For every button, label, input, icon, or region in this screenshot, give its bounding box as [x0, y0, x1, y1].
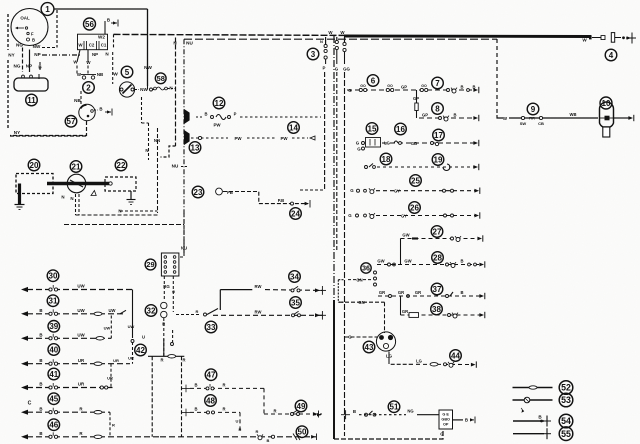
- callout 34: [289, 271, 301, 283]
- row 26 connector a: [356, 214, 359, 217]
- lamp row 31 lead with arrow: [21, 311, 28, 316]
- svg-text:17: 17: [434, 131, 443, 140]
- battery earth symbol: [15, 205, 25, 210]
- svg-text:NU: NU: [186, 41, 193, 46]
- lamp row 45 lead with arrow: [21, 410, 28, 415]
- NP wire to ignition coil: [42, 54, 80, 56]
- corner W wire to wiper: [497, 115, 503, 118]
- row 8 lamp: [443, 116, 449, 121]
- row 51 left stub: [313, 414, 322, 416]
- bottom connector: [271, 435, 274, 438]
- row 41 bullet connector: [49, 383, 58, 389]
- row 45 bullet connector: [49, 408, 58, 414]
- row 34 terminal arrowhead: [315, 288, 320, 292]
- GN wire to stabilizer: [339, 301, 385, 303]
- row 30 wire: [27, 289, 133, 291]
- row 34 switch: [291, 286, 300, 292]
- svg-text:OAL: OAL: [20, 16, 30, 21]
- callout 51: [388, 401, 400, 413]
- row 47 bullet connector: [206, 384, 214, 390]
- svg-text:UW: UW: [77, 284, 85, 289]
- starter B wire: [94, 109, 98, 111]
- bus P connector 3: [324, 56, 327, 59]
- left rail bottom section: [151, 356, 153, 437]
- svg-text:57: 57: [67, 117, 76, 126]
- row 38 wire: [401, 314, 482, 316]
- wiper connector a: [521, 116, 524, 119]
- callout 55: [559, 427, 573, 441]
- legend apostrophe mark: [521, 408, 524, 412]
- NW wire to vertical: [42, 47, 57, 49]
- svg-text:13: 13: [191, 143, 200, 152]
- svg-text:B: B: [465, 418, 468, 423]
- svg-text:23: 23: [194, 188, 203, 197]
- UW drop from row 30: [132, 290, 134, 339]
- svg-text:B: B: [39, 308, 42, 313]
- row 39 wire: [27, 337, 111, 339]
- B wire stub: [39, 62, 41, 72]
- svg-text:R: R: [196, 309, 199, 314]
- instrument voltage stabilizer (43) body: [376, 332, 395, 351]
- row 51 wire b: [417, 414, 439, 416]
- RG wire to flasher: [163, 276, 165, 301]
- svg-text:46: 46: [49, 421, 58, 430]
- NW wire stub: [153, 89, 157, 91]
- callout 40: [48, 344, 60, 356]
- row 7 connector b: [467, 89, 470, 92]
- left frame border upper: [7, 14, 9, 50]
- svg-text:5: 5: [125, 68, 130, 77]
- row 8 connector: [439, 117, 442, 120]
- bus G vertical: [336, 72, 338, 250]
- svg-text:NB: NB: [97, 72, 103, 77]
- hatched terminal 50: [293, 434, 300, 441]
- main feed wire from coil box: [114, 34, 345, 35]
- row 31 wire: [27, 313, 126, 315]
- svg-text:NU: NU: [172, 164, 179, 169]
- lamp row 46 lead with arrow: [21, 434, 28, 439]
- bottom wire lamp: [257, 434, 263, 439]
- svg-text:21: 21: [72, 162, 81, 171]
- svg-text:B: B: [194, 383, 197, 388]
- svg-text:R: R: [273, 408, 276, 413]
- row 28 connector b: [393, 263, 396, 266]
- dynamo (1) body: [11, 9, 48, 46]
- row 26 terminal: [474, 212, 479, 218]
- bus P vertical: [324, 72, 326, 190]
- battery earth thick cable: [18, 184, 21, 205]
- callout 4: [605, 49, 617, 61]
- row 45 inline connector: [94, 411, 102, 414]
- callout 10: [600, 97, 612, 109]
- svg-text:GW: GW: [377, 258, 384, 263]
- row 12 wire to bus: [240, 116, 321, 118]
- row 51 blade: [369, 411, 373, 415]
- svg-text:R: R: [239, 427, 242, 432]
- callout 56: [84, 18, 96, 30]
- contact breaker points: [81, 75, 96, 80]
- svg-text:FIR: FIR: [529, 117, 535, 121]
- ignition coil windings: [78, 34, 108, 50]
- row 15 terminal: [473, 140, 478, 146]
- svg-text:G: G: [357, 147, 361, 152]
- svg-text:C: C: [28, 401, 32, 407]
- row 28 connector c: [446, 263, 449, 266]
- bus P stub to feed line: [325, 37, 327, 45]
- svg-text:29: 29: [146, 260, 154, 269]
- lamp row 39 lead with arrow: [21, 336, 28, 341]
- NW stub to switch wire: [147, 86, 149, 90]
- row 17 connector a: [431, 142, 434, 145]
- svg-text:GO: GO: [387, 84, 393, 88]
- connector box (51): [439, 410, 453, 429]
- callout 7: [432, 77, 444, 89]
- svg-text:UR: UR: [78, 358, 85, 363]
- svg-text:N: N: [61, 195, 64, 200]
- solenoid terminal: [109, 182, 112, 185]
- row 15 loop symbol: [394, 141, 398, 143]
- row 18 connector b: [373, 166, 376, 169]
- callout 16: [395, 123, 407, 135]
- callout 37: [431, 283, 443, 295]
- callout 54: [559, 414, 573, 428]
- R wire from flasher down: [163, 318, 165, 356]
- callout 17: [433, 129, 445, 141]
- svg-text:37: 37: [433, 285, 442, 294]
- row 6 connector pair: [359, 88, 367, 91]
- starter switch wire down b: [78, 194, 80, 215]
- row 46 long wire: [160, 436, 316, 438]
- hook connector: [171, 343, 174, 346]
- wiper connector b: [539, 116, 542, 119]
- callout 29: [145, 259, 156, 270]
- cluster 36 connector b: [374, 277, 377, 280]
- svg-text:39: 39: [49, 322, 58, 331]
- horn body: [14, 78, 48, 91]
- row 47 wire: [190, 387, 264, 389]
- W wire to distributor points: [76, 66, 78, 75]
- N wire along bottom of battery section: [76, 214, 158, 216]
- callout 32: [145, 305, 157, 317]
- svg-text:12: 12: [215, 99, 224, 108]
- svg-text:B: B: [39, 406, 42, 411]
- GN stub wire: [348, 279, 371, 281]
- bus P connector 1: [324, 44, 327, 47]
- dynamo internal terminals: [15, 27, 35, 43]
- right edge of control box area down to ignition switch: [147, 9, 149, 86]
- junction block pin row 1: [164, 256, 176, 259]
- svg-text:B: B: [267, 438, 270, 443]
- svg-text:B: B: [39, 382, 42, 387]
- fuel tank unit resistor: [409, 313, 419, 318]
- svg-text:NW: NW: [144, 65, 152, 70]
- row 27 lamp: [455, 236, 461, 241]
- row 48 wire: [190, 411, 240, 413]
- callout 26: [409, 202, 421, 214]
- R horizontal link: [148, 355, 184, 357]
- row 31 inline connector: [94, 312, 102, 315]
- fuel pump body: [216, 188, 223, 195]
- svg-text:UW: UW: [77, 308, 85, 313]
- N wire bottom jog: [120, 210, 158, 212]
- svg-text:CB: CB: [538, 121, 544, 126]
- svg-text:NG: NG: [14, 64, 21, 69]
- GN drop to stabilizer: [384, 302, 386, 333]
- svg-text:G E: G E: [442, 413, 449, 417]
- coil wire W down-left: [77, 50, 80, 62]
- row 8 terminal: [473, 115, 478, 121]
- svg-text:F: F: [31, 31, 34, 36]
- row 7 connector pair: [420, 88, 428, 91]
- row 26 lamp: [369, 213, 375, 218]
- G drop hook: [172, 330, 174, 342]
- FB wire stepping down: [223, 192, 308, 204]
- LG stem: [388, 352, 390, 361]
- svg-text:33: 33: [207, 323, 216, 332]
- row 44 wire start: [389, 360, 409, 364]
- row 9 wire end: [614, 117, 630, 119]
- row 48 drop: [239, 412, 241, 433]
- row 51 wire a: [359, 414, 406, 416]
- row 25 connector a: [357, 189, 360, 192]
- box terminal: [470, 417, 475, 424]
- fuse connector: [362, 142, 365, 145]
- N wire down to solenoid: [148, 123, 150, 160]
- callout 27: [431, 226, 443, 238]
- svg-text:36: 36: [362, 266, 370, 273]
- svg-text:4: 4: [609, 51, 614, 60]
- wire from switch down: [141, 97, 143, 123]
- UR link rows 40-41: [110, 364, 112, 388]
- inline fuse row 8: [415, 103, 418, 111]
- row 28 connector d: [468, 263, 471, 266]
- connector on NW wire: [150, 88, 153, 91]
- solenoid earth wire: [130, 191, 132, 199]
- row 9 wire WB: [509, 117, 598, 119]
- svg-text:B: B: [353, 409, 356, 414]
- row 44 wire: [409, 363, 472, 365]
- junction block pin row 3: [164, 266, 176, 269]
- horn terminal 2: [30, 75, 33, 78]
- row 6 wire: [347, 89, 476, 91]
- cluster 36 connector a: [374, 271, 377, 274]
- row 28 wire: [377, 264, 481, 266]
- svg-text:G: G: [356, 141, 360, 146]
- svg-text:RW: RW: [255, 284, 262, 289]
- bus P stub: [325, 59, 327, 64]
- row 41 wire: [27, 387, 113, 389]
- row 37 terminal: [479, 293, 484, 299]
- svg-text:42: 42: [136, 346, 145, 355]
- svg-text:B: B: [39, 431, 42, 436]
- callout 42: [135, 344, 147, 356]
- bus G connector 1: [335, 40, 338, 43]
- callout 2: [83, 82, 95, 94]
- row 13 end arrow: [310, 136, 315, 140]
- callout 15: [366, 123, 378, 135]
- svg-text:LG: LG: [416, 358, 422, 363]
- row 37 connector c: [446, 295, 449, 298]
- fuse holder (4): [589, 33, 625, 43]
- battery outline: [16, 174, 53, 194]
- row 40 inline connector: [94, 362, 102, 365]
- horn speaker lower: [185, 131, 190, 144]
- svg-text:G: G: [350, 188, 354, 193]
- svg-text:W: W: [113, 72, 118, 78]
- horn terminal mark: [38, 74, 40, 79]
- row 45 wire: [27, 411, 110, 413]
- left edge wire of main box: [175, 38, 177, 147]
- callout 35: [290, 297, 302, 309]
- bus N vertical solid lower: [333, 300, 335, 439]
- svg-text:NU: NU: [181, 246, 187, 251]
- horn speaker upper: [185, 110, 190, 123]
- row 26 connector b: [364, 214, 367, 217]
- NB wire to starter motor: [80, 91, 82, 105]
- R link rows 45-46: [109, 412, 111, 437]
- svg-text:NP: NP: [92, 52, 98, 57]
- W wire from coil to switch area: [112, 52, 114, 84]
- row 44 connector a: [444, 363, 447, 366]
- junction block pin row 2: [164, 261, 176, 264]
- svg-text:GP: GP: [422, 113, 428, 118]
- G return wire bottom: [334, 430, 443, 440]
- svg-text:R: R: [182, 358, 185, 363]
- svg-text:PW: PW: [234, 136, 242, 141]
- row 25 lamp: [369, 188, 375, 193]
- svg-text:6: 6: [371, 76, 376, 85]
- svg-text:25: 25: [411, 176, 420, 185]
- box B wire: [453, 419, 464, 421]
- row 41 end connector: [100, 386, 108, 389]
- svg-text:3: 3: [311, 50, 316, 59]
- row 25 connector b: [364, 189, 367, 192]
- svg-text:NB: NB: [74, 98, 81, 103]
- row 28 lamp: [450, 262, 456, 267]
- svg-text:R: R: [222, 383, 225, 388]
- coil W2 wire: [104, 28, 106, 34]
- second feed wire below top: [184, 38, 497, 40]
- svg-text:40: 40: [49, 345, 58, 354]
- svg-text:B: B: [453, 113, 456, 118]
- row 48 connector: [207, 411, 215, 414]
- svg-text:NN: NN: [154, 138, 160, 143]
- row 7 connector: [447, 89, 450, 92]
- svg-text:28: 28: [433, 253, 442, 262]
- svg-text:GW: GW: [402, 232, 409, 237]
- svg-text:R: R: [256, 429, 259, 434]
- horn connector b: [228, 116, 231, 119]
- svg-text:44: 44: [451, 351, 460, 360]
- svg-text:OP: OP: [443, 423, 449, 427]
- svg-text:U: U: [236, 419, 239, 424]
- svg-text:19: 19: [434, 155, 443, 164]
- row 19 loop: [443, 164, 450, 171]
- row 38 terminal: [479, 312, 484, 318]
- NU tick: [181, 166, 187, 168]
- lamp row 40 lead with arrow: [21, 361, 28, 366]
- row 46 bullet connector: [49, 432, 58, 438]
- N wire down long: [157, 128, 159, 213]
- row 37 connector a: [389, 295, 392, 298]
- row 44 lamp: [448, 362, 454, 367]
- bus GG stub: [344, 52, 346, 64]
- row 24 end arrow: [305, 200, 310, 208]
- bus G connector 2: [335, 46, 338, 49]
- G wire down: [172, 276, 174, 312]
- row 18 wire: [377, 166, 476, 168]
- fuse connector b: [362, 147, 365, 150]
- R link inline connector: [168, 355, 176, 358]
- svg-text:7: 7: [435, 79, 440, 88]
- callout 13: [189, 142, 201, 154]
- svg-text:B: B: [204, 112, 207, 117]
- callout 53: [559, 393, 573, 407]
- svg-text:2: 2: [86, 83, 91, 92]
- svg-text:15: 15: [368, 124, 377, 133]
- svg-text:RW: RW: [255, 310, 262, 315]
- row 35 terminal cross: [318, 311, 326, 320]
- svg-text:38: 38: [432, 305, 441, 314]
- svg-text:24: 24: [291, 209, 300, 218]
- row 28 connector a: [388, 263, 391, 266]
- svg-text:GG: GG: [343, 67, 350, 72]
- NP wire from dynamo down: [29, 50, 31, 73]
- row 17 connector b: [435, 142, 438, 145]
- row 9 terminal: [628, 115, 633, 121]
- svg-text:NP: NP: [26, 64, 32, 69]
- row 34 wire start: [220, 289, 252, 291]
- svg-text:UR: UR: [107, 376, 113, 381]
- coil B wire up: [104, 21, 106, 28]
- callout 46: [48, 419, 60, 431]
- svg-text:W: W: [582, 38, 587, 43]
- svg-text:35: 35: [291, 298, 300, 307]
- row 13 wire c: [292, 137, 308, 139]
- legend oval connector: [529, 386, 537, 389]
- row 38 lamp: [452, 313, 458, 318]
- svg-text:N: N: [145, 148, 148, 153]
- svg-text:NG: NG: [407, 409, 413, 414]
- svg-text:C2: C2: [89, 42, 95, 47]
- row 6 connector pair 2: [386, 88, 394, 91]
- P wire corner toward fuel pump: [300, 189, 324, 191]
- row 31 bullet connector: [49, 309, 58, 315]
- lamp row 41 lead with arrow: [21, 385, 28, 390]
- bus G stub: [336, 50, 338, 64]
- row 49 switch: [291, 410, 300, 416]
- svg-text:55: 55: [561, 429, 571, 439]
- svg-text:NY: NY: [8, 53, 14, 58]
- junction block pin row 4: [164, 271, 176, 274]
- cluster 36 connector c: [374, 283, 377, 286]
- row 51 connector b: [373, 413, 376, 416]
- callout 18: [380, 153, 392, 165]
- row 25 terminal: [474, 188, 479, 194]
- svg-text:NY: NY: [14, 130, 20, 135]
- jog right: [142, 122, 149, 124]
- svg-text:R: R: [222, 407, 225, 412]
- svg-text:GBO: GBO: [441, 418, 450, 422]
- svg-text:UW: UW: [104, 326, 111, 331]
- svg-text:GP: GP: [401, 84, 407, 89]
- callout 9: [527, 103, 539, 115]
- GP drop wire lower: [416, 111, 418, 119]
- svg-text:GR: GR: [415, 290, 421, 295]
- coil wire down: [87, 50, 89, 62]
- row 33 switch pivot: [204, 313, 207, 316]
- svg-text:GR: GR: [398, 290, 404, 295]
